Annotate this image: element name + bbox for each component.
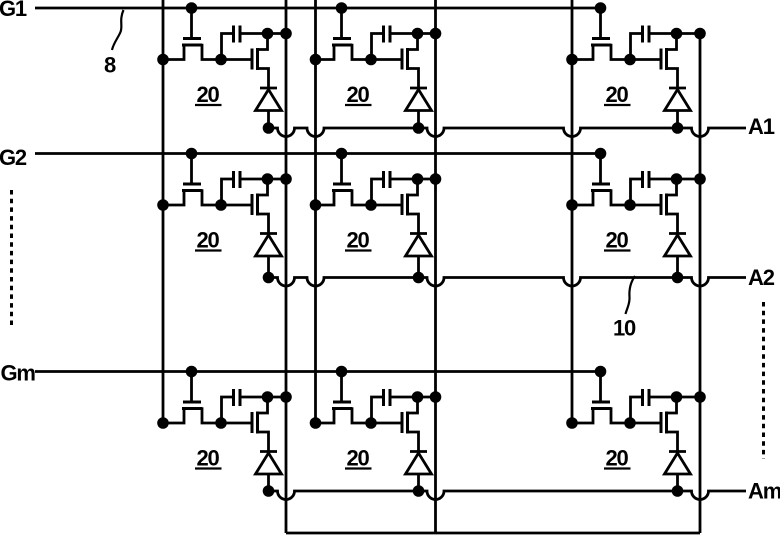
wire: storage node to Qm2b gate [371, 422, 401, 425]
output line A2 [269, 278, 747, 287]
transistor Qm3a (row-select TFT) [572, 402, 630, 423]
wire: gate stub of Q12a [340, 8, 343, 38]
node: C11/Q11b junction [262, 28, 274, 40]
node: junction on column 3 bus [566, 417, 578, 429]
node: junction on column 3 readout vertical [694, 28, 706, 40]
svg-text:A2: A2 [748, 265, 775, 290]
transistor Q21a (row-select TFT) [163, 184, 221, 205]
node: Qm3a gate tap on Gm [595, 366, 607, 378]
label 20 (cell 12) [345, 82, 372, 107]
wire: column 3 readout vertical line [699, 34, 702, 534]
wire: column 1 readout vertical line [285, 0, 288, 533]
output line Am [269, 491, 747, 500]
label Gm [1, 361, 36, 386]
wire: gate stub of Qm3a [599, 372, 602, 402]
wire: column 1 bias bus (vertical) [162, 0, 165, 423]
label 20 (cell m1) [195, 446, 222, 471]
node: Q23a gate tap on G2 [595, 148, 607, 160]
wire: storage node to Qm3b gate [630, 422, 660, 425]
transistor Q22b (amplifier TFT) [402, 181, 419, 234]
node: junction on column 1 bus [157, 54, 169, 66]
wire: gate stub of Qm1a [190, 372, 193, 402]
node: junction on column 2 bus [310, 54, 322, 66]
svg-text:20: 20 [605, 446, 628, 471]
capacitor C13 [631, 26, 701, 59]
label 10 (output line reference) [613, 316, 636, 341]
node: storage node of cell 12 [365, 54, 377, 66]
node: C21/Q21b junction [262, 173, 274, 185]
label G1 [0, 0, 27, 21]
wire: gate stub of Q13a [599, 8, 602, 38]
capacitor Cm2 [372, 389, 436, 422]
node: junction on column 2 readout vertical [430, 28, 442, 40]
label 20 (cell 22) [345, 228, 372, 253]
node: Qm2a gate tap on Gm [336, 366, 348, 378]
transistor Qm1b (amplifier TFT) [252, 399, 269, 452]
svg-text:8: 8 [104, 53, 116, 78]
node: storage node of cell 23 [624, 199, 636, 211]
photodiode Dm2 [406, 452, 432, 492]
transistor Q13b (amplifier TFT) [661, 35, 678, 88]
label A1 [748, 114, 775, 139]
wire: storage node to Q22b gate [371, 204, 401, 207]
node: D21 anode on A2 [263, 272, 275, 284]
node: Qm1a gate tap on Gm [186, 366, 198, 378]
node: junction on column 3 readout vertical [694, 173, 706, 185]
gate line Gm [35, 370, 606, 373]
node: junction on column 3 bus [566, 54, 578, 66]
node: Q12a gate tap on G1 [336, 2, 348, 14]
svg-text:Am: Am [748, 479, 780, 504]
photodiode D13 [665, 88, 691, 128]
node: junction on column 2 readout vertical [430, 391, 442, 403]
wire: gate stub of Qm2a [340, 372, 343, 402]
node: storage node of cell 22 [365, 199, 377, 211]
node: Q22a gate tap on G2 [336, 148, 348, 160]
leader line to label 10 [626, 276, 636, 314]
label 8 (gate line reference) [104, 53, 116, 78]
transistor Q23a (row-select TFT) [572, 184, 630, 205]
node: C23/Q23b junction [671, 173, 683, 185]
photodiode Dm3 [665, 452, 691, 492]
node: C12/Q12b junction [412, 28, 424, 40]
label 20 (cell 13) [604, 82, 631, 107]
svg-text:20: 20 [605, 82, 628, 107]
transistor Qm2a (row-select TFT) [316, 402, 372, 423]
svg-text:G1: G1 [0, 0, 27, 21]
wire: column 2 bias bus (vertical) [314, 0, 317, 423]
node: junction on column 1 readout vertical [280, 391, 292, 403]
wire: storage node to Q11b gate [221, 58, 251, 61]
svg-text:10: 10 [613, 316, 636, 341]
svg-text:20: 20 [605, 228, 628, 253]
wire: bottom common line [286, 532, 700, 535]
node: Q21a gate tap on G2 [186, 148, 198, 160]
node: storage node of cell 13 [624, 54, 636, 66]
photodiode D22 [406, 234, 432, 278]
node: C22/Q22b junction [412, 173, 424, 185]
capacitor C22 [372, 171, 436, 204]
node: D23 anode on A2 [672, 272, 684, 284]
wire: storage node to Q13b gate [630, 58, 660, 61]
wire: gate stub of Q21a [190, 154, 193, 184]
node: Q13a gate tap on G1 [595, 2, 607, 14]
photodiode D11 [256, 88, 282, 128]
transistor Q11b (amplifier TFT) [252, 35, 269, 88]
label G2 [0, 145, 27, 170]
transistor Q23b (amplifier TFT) [661, 181, 678, 234]
node: Dm3 anode on Am [672, 485, 684, 497]
node: Dm1 anode on Am [263, 485, 275, 497]
node: storage node of cell m2 [365, 417, 377, 429]
ellipsis: more gate lines (left) [10, 190, 13, 328]
label A2 [748, 265, 775, 290]
wire: gate stub of Q11a [190, 8, 193, 38]
svg-text:Gm: Gm [1, 361, 36, 386]
node: storage node of cell m3 [624, 417, 636, 429]
node: Q11a gate tap on G1 [186, 2, 198, 14]
node: storage node of cell 21 [215, 199, 227, 211]
svg-text:20: 20 [196, 228, 219, 253]
label 20 (cell 11) [195, 82, 222, 107]
transistor Qm3b (amplifier TFT) [661, 399, 678, 452]
node: junction on column 3 bus [566, 199, 578, 211]
node: Dm2 anode on Am [413, 485, 425, 497]
label 20 (cell m3) [604, 446, 631, 471]
svg-text:G2: G2 [0, 145, 27, 170]
node: Cm3/Qm3b junction [671, 391, 683, 403]
node: junction on column 2 bus [310, 417, 322, 429]
node: junction on column 1 readout vertical [280, 173, 292, 185]
node: C13/Q13b junction [671, 28, 683, 40]
node: D11 anode on A1 [263, 122, 275, 134]
wire: storage node to Q21b gate [221, 204, 251, 207]
node: Cm2/Qm2b junction [412, 391, 424, 403]
svg-text:20: 20 [196, 446, 219, 471]
leader line to label 8 [112, 10, 124, 50]
wire: gate stub of Q22a [340, 154, 343, 184]
node: D22 anode on A2 [413, 272, 425, 284]
node: storage node of cell m1 [215, 417, 227, 429]
output line A1 [269, 128, 747, 137]
svg-text:20: 20 [196, 82, 219, 107]
node: junction on column 1 bus [157, 417, 169, 429]
svg-text:20: 20 [346, 82, 369, 107]
transistor Q21b (amplifier TFT) [252, 181, 269, 234]
wire: gate stub of Q23a [599, 154, 602, 184]
wire: column 3 bias bus (vertical) [571, 0, 574, 423]
gate line G1 [35, 7, 606, 10]
ellipsis: more output lines (right) [762, 302, 765, 459]
wire: storage node to Q23b gate [630, 204, 660, 207]
node: Cm1/Qm1b junction [262, 391, 274, 403]
gate line G2 [35, 152, 606, 155]
photodiode D12 [406, 88, 432, 128]
node: storage node of cell 11 [215, 54, 227, 66]
wire: storage node to Q12b gate [371, 58, 401, 61]
wire: column 2 readout vertical line [434, 0, 437, 533]
label Am [748, 479, 780, 504]
photodiode Dm1 [256, 452, 282, 492]
capacitor C12 [372, 26, 436, 59]
label 20 (cell 23) [604, 228, 631, 253]
node: D12 anode on A1 [413, 122, 425, 134]
photodiode D21 [256, 234, 282, 278]
transistor Qm1a (row-select TFT) [163, 402, 221, 423]
svg-text:A1: A1 [748, 114, 775, 139]
transistor Q13a (row-select TFT) [572, 39, 630, 60]
transistor Q12b (amplifier TFT) [402, 35, 419, 88]
node: junction on column 1 readout vertical [280, 28, 292, 40]
node: junction on column 2 readout vertical [430, 173, 442, 185]
label 20 (cell m2) [345, 446, 372, 471]
photodiode D23 [665, 234, 691, 278]
svg-text:20: 20 [346, 228, 369, 253]
capacitor C23 [631, 171, 701, 204]
transistor Q22a (row-select TFT) [316, 184, 372, 205]
transistor Qm2b (amplifier TFT) [402, 399, 419, 452]
capacitor Cm1 [222, 389, 287, 422]
svg-text:20: 20 [346, 446, 369, 471]
node: junction on column 3 readout vertical [694, 391, 706, 403]
capacitor C11 [222, 26, 287, 59]
node: junction on column 2 bus [310, 199, 322, 211]
transistor Q12a (row-select TFT) [316, 39, 372, 60]
capacitor Cm3 [631, 389, 701, 422]
wire: storage node to Qm1b gate [221, 422, 251, 425]
node: junction on column 1 bus [157, 199, 169, 211]
transistor Q11a (row-select TFT) [163, 39, 221, 60]
capacitor C21 [222, 171, 287, 204]
label 20 (cell 21) [195, 228, 222, 253]
node: D13 anode on A1 [672, 122, 684, 134]
